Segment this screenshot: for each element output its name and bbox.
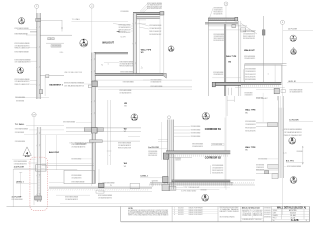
svg-text:RIGID INSULATION AS SPEC: RIGID INSULATION AS SPEC <box>214 39 225 42</box>
svg-text:EXTERIOR SHEATHING MEMBRANE: EXTERIOR SHEATHING MEMBRANE <box>15 127 28 130</box>
svg-text:A-128: A-128 <box>291 52 296 55</box>
svg-text:WALL TYPE: WALL TYPE <box>245 146 256 149</box>
svg-text:CONT. SEALANT AND BACKER ROD: CONT. SEALANT AND BACKER ROD <box>284 131 302 134</box>
svg-text:EXTERIOR SHEATHING MEMBRANE: EXTERIOR SHEATHING MEMBRANE <box>150 85 162 88</box>
svg-text:CONT. SEALANT AND BACKER ROD: CONT. SEALANT AND BACKER ROD <box>14 162 27 165</box>
svg-text:PREFIN. MTL FLASHING W/ DRIP: PREFIN. MTL FLASHING W/ DRIP <box>15 83 30 86</box>
svg-text:RIGID INSULATION AS SPEC: RIGID INSULATION AS SPEC <box>147 7 162 10</box>
svg-text:EXTERIOR SHEATHING MEMBRANE: EXTERIOR SHEATHING MEMBRANE <box>191 135 201 138</box>
svg-text:EXTERIOR SHEATHING MEMBRANE: EXTERIOR SHEATHING MEMBRANE <box>287 165 301 168</box>
svg-text:WALL DETAILS (BLOCK A): WALL DETAILS (BLOCK A) <box>277 206 307 209</box>
svg-text:A-128: A-128 <box>291 181 297 184</box>
svg-text:CONT. SEALANT AND BACKER ROD: CONT. SEALANT AND BACKER ROD <box>213 73 223 76</box>
svg-text:EXTERIOR SHEATHING MEMBRANE: EXTERIOR SHEATHING MEMBRANE <box>98 194 112 197</box>
svg-text:T.O. WALL: T.O. WALL <box>15 123 25 126</box>
svg-text:CONT. SEALANT AND BACKER ROD: CONT. SEALANT AND BACKER ROD <box>15 61 31 64</box>
svg-text:PREFIN. MTL FLASHING W/ DRIP: PREFIN. MTL FLASHING W/ DRIP <box>119 65 133 68</box>
svg-text:EXTERIOR SHEATHING MEMBRANE: EXTERIOR SHEATHING MEMBRANE <box>12 198 23 201</box>
svg-text:A-128: A-128 <box>25 155 30 158</box>
svg-text:PREFIN. MTL FLASHING W/ DRIP: PREFIN. MTL FLASHING W/ DRIP <box>245 126 256 129</box>
svg-text:CONT. SEALANT AND BACKER ROD: CONT. SEALANT AND BACKER ROD <box>212 166 223 169</box>
svg-text:CONT. SEALANT AND BACKER ROD: CONT. SEALANT AND BACKER ROD <box>65 198 78 201</box>
svg-text:PREFIN. MTL FLASHING W/ DRIP: PREFIN. MTL FLASHING W/ DRIP <box>118 146 131 149</box>
svg-text:W2: W2 <box>124 105 127 107</box>
svg-text:CORRIDOR B1: CORRIDOR B1 <box>205 129 222 131</box>
svg-text:SYDNEY NSW: SYDNEY NSW <box>242 215 252 217</box>
svg-text:CONT. SEALANT AND BACKER ROD: CONT. SEALANT AND BACKER ROD <box>245 70 256 73</box>
svg-text:EXTERIOR SHEATHING MEMBRANE: EXTERIOR SHEATHING MEMBRANE <box>15 32 28 35</box>
svg-text:EXTERIOR SHEATHING MEMBRANE: EXTERIOR SHEATHING MEMBRANE <box>297 150 303 153</box>
svg-text:EXTERIOR SHEATHING MEMBRANE: EXTERIOR SHEATHING MEMBRANE <box>152 180 158 183</box>
svg-text:WALL TYPE: WALL TYPE <box>226 55 237 58</box>
svg-text:A-128: A-128 <box>132 118 138 121</box>
svg-text:A-128: A-128 <box>291 218 299 222</box>
svg-text:EXTERIOR SHEATHING MEMBRANE: EXTERIOR SHEATHING MEMBRANE <box>15 27 29 30</box>
svg-text:EXTERIOR SHEATHING MEMBRANE: EXTERIOR SHEATHING MEMBRANE <box>245 68 256 71</box>
svg-text:A-128: A-128 <box>290 141 296 144</box>
svg-text:PREFIN. MTL FLASHING W/ DRIP: PREFIN. MTL FLASHING W/ DRIP <box>148 154 157 157</box>
svg-text:CONT. SEALANT AND BACKER ROD: CONT. SEALANT AND BACKER ROD <box>98 196 112 199</box>
svg-text:EXTERIOR SHEATHING MEMBRANE: EXTERIOR SHEATHING MEMBRANE <box>191 129 201 132</box>
svg-text:W5: W5 <box>245 112 248 114</box>
svg-text:5: 5 <box>205 112 208 117</box>
svg-text:RIGID INSULATION AS SPEC: RIGID INSULATION AS SPEC <box>212 172 223 175</box>
svg-text:CONT. SEALANT AND BACKER ROD: CONT. SEALANT AND BACKER ROD <box>175 159 181 162</box>
svg-text:EXTERIOR SHEATHING MEMBRANE: EXTERIOR SHEATHING MEMBRANE <box>191 132 201 135</box>
svg-text:W4: W4 <box>228 60 231 63</box>
svg-text:T.O. WALL: T.O. WALL <box>72 18 80 21</box>
svg-text:F 02 9000 0001: F 02 9000 0001 <box>253 212 262 214</box>
svg-text:EXTERIOR SHEATHING MEMBRANE: EXTERIOR SHEATHING MEMBRANE <box>212 164 223 167</box>
svg-text:PREFIN. MTL FLASHING W/ DRIP: PREFIN. MTL FLASHING W/ DRIP <box>149 30 161 33</box>
svg-text:AIR/VAPOUR BARRIER MEMBRANE: AIR/VAPOUR BARRIER MEMBRANE <box>245 78 256 81</box>
svg-text:CONT. SEALANT AND BACKER ROD: CONT. SEALANT AND BACKER ROD <box>150 80 161 83</box>
svg-text:4: 4 <box>26 151 28 155</box>
svg-text:B.O. FTG: B.O. FTG <box>286 161 294 163</box>
svg-text:A-128: A-128 <box>203 198 209 201</box>
svg-text:EXTERIOR SHEATHING MEMBRANE: EXTERIOR SHEATHING MEMBRANE <box>71 157 81 160</box>
svg-text:EXTERIOR SHEATHING MEMBRANE: EXTERIOR SHEATHING MEMBRANE <box>191 125 201 128</box>
svg-text:EXTERIOR SHEATHING MEMBRANE: EXTERIOR SHEATHING MEMBRANE <box>71 181 84 184</box>
svg-text:PROJ: PROJ <box>273 218 277 220</box>
svg-text:A-128: A-128 <box>19 21 24 24</box>
svg-text:1st FLOOR: 1st FLOOR <box>289 118 299 121</box>
svg-text:W2: W2 <box>124 131 127 133</box>
svg-text:CORRIDOR B2: CORRIDOR B2 <box>205 158 222 160</box>
svg-text:CONT. SEALANT AND BACKER ROD: CONT. SEALANT AND BACKER ROD <box>149 27 161 30</box>
svg-text:EXTERIOR SHEATHING MEMBRANE: EXTERIOR SHEATHING MEMBRANE <box>103 181 115 184</box>
svg-text:EXTERIOR SHEATHING MEMBRANE: EXTERIOR SHEATHING MEMBRANE <box>123 81 134 84</box>
svg-text:EXTERIOR SHEATHING MEMBRANE: EXTERIOR SHEATHING MEMBRANE <box>64 81 85 84</box>
svg-text:△: △ <box>141 66 143 69</box>
svg-text:CONT. SEALANT AND BACKER ROD: CONT. SEALANT AND BACKER ROD <box>244 93 252 96</box>
svg-text:EXTERIOR SHEATHING MEMBRANE: EXTERIOR SHEATHING MEMBRANE <box>121 10 129 13</box>
svg-text:CONT. SEALANT AND BACKER ROD: CONT. SEALANT AND BACKER ROD <box>245 123 256 126</box>
svg-text:EXTERIOR SHEATHING MEMBRANE: EXTERIOR SHEATHING MEMBRANE <box>149 24 161 27</box>
svg-text:W5: W5 <box>245 150 248 152</box>
svg-text:RIGID INSULATION AS SPEC: RIGID INSULATION AS SPEC <box>245 130 256 133</box>
svg-text:RIGID INSULATION AS SPEC: RIGID INSULATION AS SPEC <box>243 37 255 40</box>
svg-text:123 GEORGE ST: 123 GEORGE ST <box>242 213 251 215</box>
svg-text:CONT. SEALANT AND BACKER ROD: CONT. SEALANT AND BACKER ROD <box>71 145 85 148</box>
svg-text:×: × <box>109 154 110 157</box>
svg-text:WALKOUT: WALKOUT <box>102 42 114 45</box>
svg-text:LEVEL 1: LEVEL 1 <box>16 182 24 184</box>
svg-text:2nd FLOOR: 2nd FLOOR <box>148 147 159 149</box>
svg-text:LEVEL B1: LEVEL B1 <box>288 81 296 83</box>
svg-text:LEVEL 1: LEVEL 1 <box>141 175 149 177</box>
svg-text:A-128: A-128 <box>81 44 88 47</box>
svg-text:PREFIN. MTL FLASHING W/ DRIP: PREFIN. MTL FLASHING W/ DRIP <box>256 169 264 172</box>
svg-text:A-128: A-128 <box>291 39 296 42</box>
svg-text:RIGID INSULATION AS SPEC: RIGID INSULATION AS SPEC <box>245 75 256 78</box>
svg-text:⇅: ⇅ <box>101 64 103 67</box>
svg-text:CONT. SEALANT AND BACKER ROD: CONT. SEALANT AND BACKER ROD <box>64 85 84 88</box>
svg-text:EXTERIOR SHEATHING MEMBRANE: EXTERIOR SHEATHING MEMBRANE <box>256 97 263 100</box>
svg-text:RIGID INSULATION AS SPEC: RIGID INSULATION AS SPEC <box>214 12 223 15</box>
svg-text:1st FLOOR: 1st FLOOR <box>288 27 298 30</box>
svg-text:A-128: A-128 <box>18 71 23 74</box>
svg-text:EXTERIOR SHEATHING MEMBRANE: EXTERIOR SHEATHING MEMBRANE <box>120 70 133 73</box>
svg-text:WALL TYPE: WALL TYPE <box>245 109 256 112</box>
svg-text:A-128: A-128 <box>169 49 174 52</box>
svg-text:CONT. SEALANT AND BACKER ROD: CONT. SEALANT AND BACKER ROD <box>192 145 203 148</box>
svg-text:CONT. SEALANT AND BACKER ROD: CONT. SEALANT AND BACKER ROD <box>289 90 302 93</box>
svg-text:EXTERIOR SHEATHING MEMBRANE: EXTERIOR SHEATHING MEMBRANE <box>76 142 87 145</box>
svg-text:EXTERIOR SHEATHING MEMBRANE: EXTERIOR SHEATHING MEMBRANE <box>15 96 25 99</box>
svg-text:PROPOSED MIXED-USE DEVELOPMENT: PROPOSED MIXED-USE DEVELOPMENT <box>220 207 239 209</box>
svg-text:CONT. SEALANT AND BACKER ROD: CONT. SEALANT AND BACKER ROD <box>71 177 81 180</box>
svg-text:F.F.L.: F.F.L. <box>60 52 64 54</box>
svg-text:T 02 9000 0000: T 02 9000 0000 <box>253 210 262 212</box>
svg-text:W4: W4 <box>124 166 127 168</box>
svg-text:BALCONY: BALCONY <box>49 151 60 154</box>
svg-text:2nd FLOOR: 2nd FLOOR <box>14 166 25 168</box>
svg-text:EXTERIOR SHEATHING MEMBRANE: EXTERIOR SHEATHING MEMBRANE <box>284 128 302 131</box>
svg-text:05/12/23: 05/12/23 <box>290 213 296 215</box>
svg-text:EXTERIOR SHEATHING MEMBRANE: EXTERIOR SHEATHING MEMBRANE <box>258 157 267 160</box>
svg-text:NEWTOWN NSW: NEWTOWN NSW <box>220 211 240 213</box>
svg-text:CONT. SEALANT AND BACKER ROD: CONT. SEALANT AND BACKER ROD <box>118 144 131 147</box>
svg-text:PREFIN. MTL FLASHING W/ DRIP: PREFIN. MTL FLASHING W/ DRIP <box>15 47 30 50</box>
svg-text:W1: W1 <box>141 52 144 54</box>
svg-text:W2: W2 <box>124 129 127 131</box>
svg-text:SUITE 4 L2: SUITE 4 L2 <box>242 212 251 214</box>
svg-text:WALKOUT: WALKOUT <box>244 49 255 52</box>
svg-text:EXTERIOR SHEATHING MEMBRANE: EXTERIOR SHEATHING MEMBRANE <box>15 51 29 54</box>
svg-text:SLOPE: SLOPE <box>120 37 125 39</box>
svg-text:A-128: A-128 <box>203 117 210 120</box>
svg-text:RIGID INSULATION AS SPEC: RIGID INSULATION AS SPEC <box>149 33 161 36</box>
svg-text:PREFIN. MTL FLASHING W/ DRIP: PREFIN. MTL FLASHING W/ DRIP <box>245 73 256 76</box>
svg-text:05/12/23: 05/12/23 <box>178 214 184 216</box>
svg-text:CONT. SEALANT AND BACKER ROD: CONT. SEALANT AND BACKER ROD <box>119 91 131 94</box>
svg-text:BASEMENT 1: BASEMENT 1 <box>49 84 63 87</box>
svg-text:EXTERIOR SHEATHING MEMBRANE: EXTERIOR SHEATHING MEMBRANE <box>63 120 75 123</box>
svg-text:CONT. SEALANT AND BACKER ROD: CONT. SEALANT AND BACKER ROD <box>15 80 30 83</box>
svg-text:PREFIN. MTL FLASHING W/ DRIP: PREFIN. MTL FLASHING W/ DRIP <box>212 169 223 172</box>
svg-text:EXTERIOR SHEATHING MEMBRANE: EXTERIOR SHEATHING MEMBRANE <box>15 131 24 134</box>
svg-text:EXTERIOR SHEATHING MEMBRANE: EXTERIOR SHEATHING MEMBRANE <box>16 99 24 102</box>
svg-text:Davis & Observer: Davis & Observer <box>242 207 260 209</box>
svg-text:(1-0): (1-0) <box>283 153 287 155</box>
svg-text:EXTERIOR SHEATHING MEMBRANE: EXTERIOR SHEATHING MEMBRANE <box>15 140 25 143</box>
svg-text:NOTE:: NOTE: <box>128 208 133 210</box>
svg-text:EXTERIOR SHEATHING MEMBRANE: EXTERIOR SHEATHING MEMBRANE <box>245 120 256 123</box>
svg-text:WWW.DO.COM: WWW.DO.COM <box>253 215 262 217</box>
svg-text:ISSUED FOR PERMIT: ISSUED FOR PERMIT <box>189 214 203 216</box>
svg-text:CONT. SEALANT AND BACKER ROD: CONT. SEALANT AND BACKER ROD <box>244 57 255 60</box>
